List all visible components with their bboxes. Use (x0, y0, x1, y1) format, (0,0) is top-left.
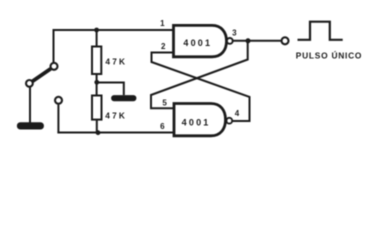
svg-text:1: 1 (160, 19, 165, 28)
svg-text:4: 4 (235, 109, 240, 118)
svg-text:5: 5 (162, 98, 167, 107)
svg-text:47K: 47K (105, 57, 127, 67)
svg-text:2: 2 (161, 42, 166, 51)
svg-text:3: 3 (232, 28, 237, 37)
svg-text:4001: 4001 (182, 117, 211, 127)
svg-text:4001: 4001 (183, 38, 212, 48)
svg-text:47K: 47K (105, 111, 127, 121)
svg-text:PULSO ÚNICO: PULSO ÚNICO (296, 49, 362, 60)
svg-text:6: 6 (160, 122, 165, 131)
